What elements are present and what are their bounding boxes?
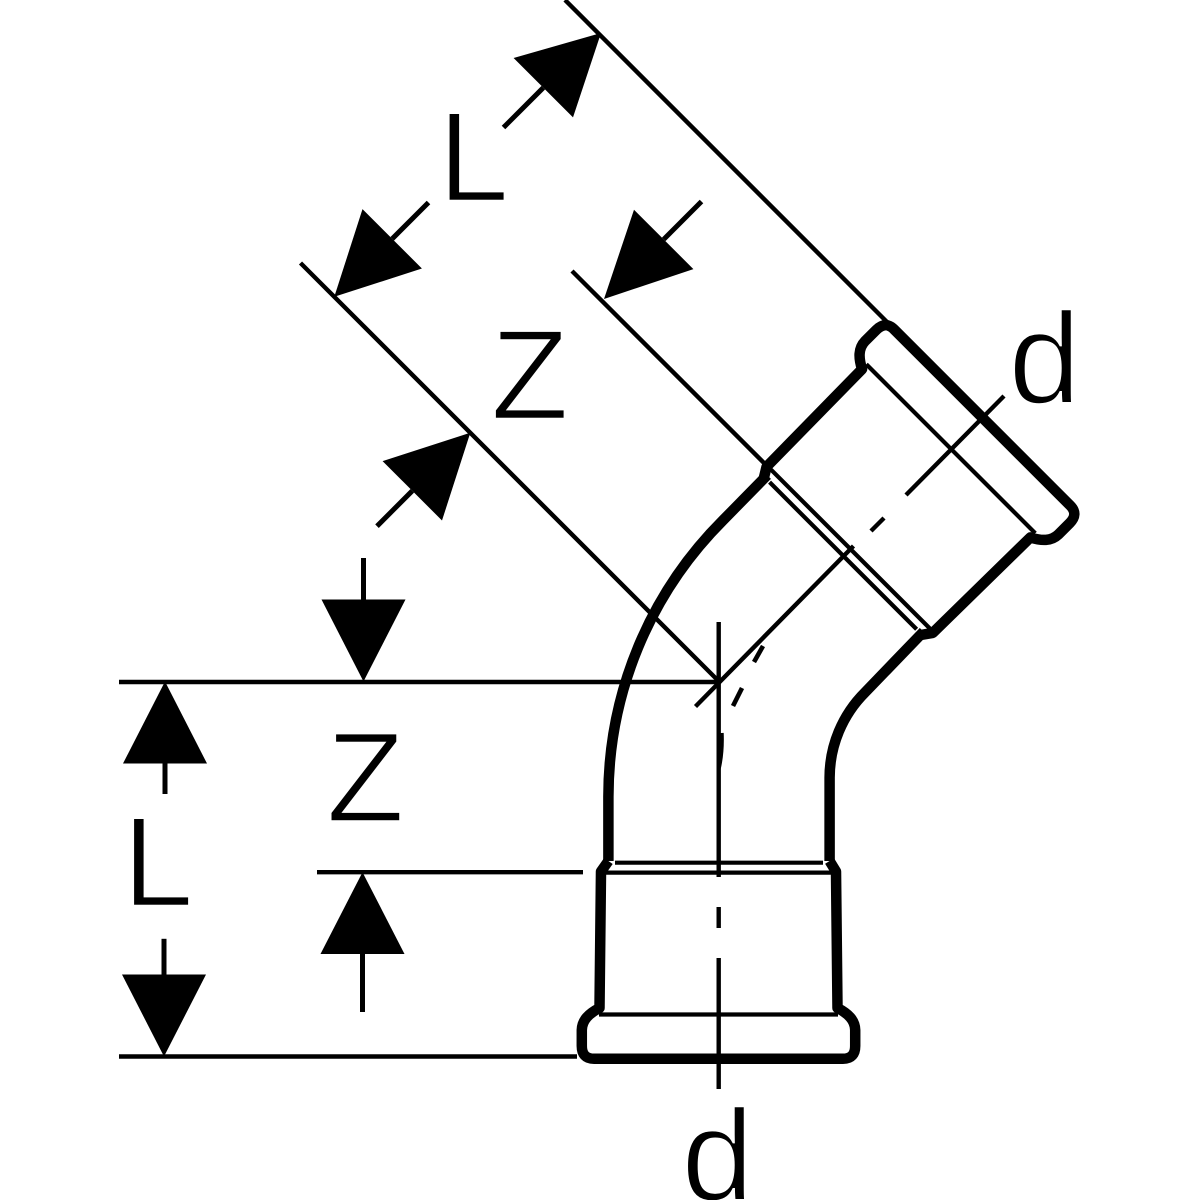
arrow L vert down (tip on bottom line) — [122, 975, 206, 1057]
vertical centreline lower dash — [717, 958, 721, 1089]
vertical centreline dot dash — [717, 907, 721, 928]
arrow Z diag lower (tip on line B) — [383, 433, 471, 521]
arrow L diag inward (tip on line B) — [334, 209, 422, 297]
bend arc centreline dash upper — [754, 646, 763, 662]
svg-text:d: d — [1008, 285, 1080, 431]
svg-text:d: d — [681, 1082, 753, 1200]
axis centreline upper dash (d leader) — [906, 396, 1004, 495]
45deg axis centreline of upper leg — [696, 546, 854, 707]
dimension line bottom (mouth level) — [119, 1054, 577, 1058]
dimension line L horizontal top (through centre) — [119, 680, 719, 684]
vertical centreline of bottom leg — [717, 622, 721, 877]
bend arc centreline dash lower — [719, 733, 722, 768]
bottom press socket — [582, 861, 855, 1059]
arrow L vert up (tip on top line) — [123, 682, 207, 764]
arrow L diag outward (tip on line A) — [514, 33, 601, 117]
svg-text:L: L — [122, 791, 193, 934]
svg-text:Z: Z — [491, 304, 569, 447]
axis centreline dot dash (upper leg) — [871, 518, 884, 531]
extension line A (mouth plane, 45deg) — [565, 0, 888, 323]
extension line C (shoulder plane, 45deg) — [572, 271, 770, 469]
svg-text:L: L — [438, 86, 509, 229]
bend arc centreline dot — [733, 688, 742, 706]
svg-text:Z: Z — [326, 707, 404, 850]
extension line B (centre plane, 45deg) — [301, 263, 719, 681]
arrow Z diag upper (tip on line C) — [604, 210, 693, 299]
bend inner wall — [830, 632, 924, 861]
arrow Z vert down (tip on top line from above) — [322, 600, 406, 682]
arrow Z vert up (tip on shoulder line from below) — [321, 872, 405, 954]
bend outer wall — [608, 475, 767, 861]
dimension line Z horizontal (shoulder level) — [317, 870, 583, 874]
upper press socket (rotated 45deg leg) — [746, 321, 1079, 654]
